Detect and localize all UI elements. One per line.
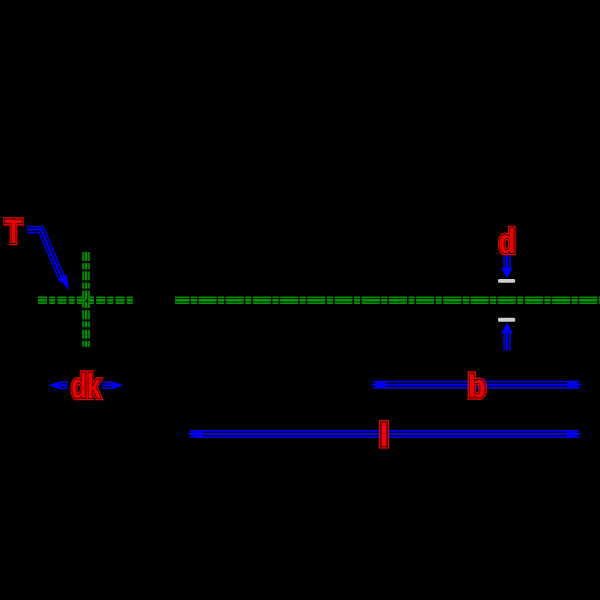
label b (thread length) [468,367,486,405]
b dimension line (thread length) [373,381,580,389]
svg-text:dk: dk [71,366,101,406]
d dimension upper arrow [503,254,511,269]
leader arrowhead [58,275,69,291]
label d (shaft diameter) [499,222,516,260]
d dimension lower arrow [503,333,511,351]
d dimension upper extension tick [498,279,515,283]
b left arrowhead [370,380,385,389]
dk dimension left arrow [59,382,68,390]
label T (drive size) [5,213,22,251]
centerline horizontal left segment (head view axis) [38,297,135,305]
svg-text:T: T [5,213,22,251]
l left arrowhead [187,430,202,439]
dk dimension right arrow [102,382,112,390]
d dimension lower extension tick [498,318,515,322]
b right arrowhead [568,380,583,389]
label l (total length) as bar [379,420,389,449]
leader line for T (drive size) [27,230,63,282]
svg-text:d: d [499,222,516,260]
svg-text:b: b [468,367,486,405]
centerline horizontal long segment (shaft axis) [175,297,600,305]
l right arrowhead [567,430,582,439]
centerline vertical (head view) [82,252,90,348]
label dk (head diameter) [71,366,101,406]
l dimension line (total length) [190,430,580,438]
